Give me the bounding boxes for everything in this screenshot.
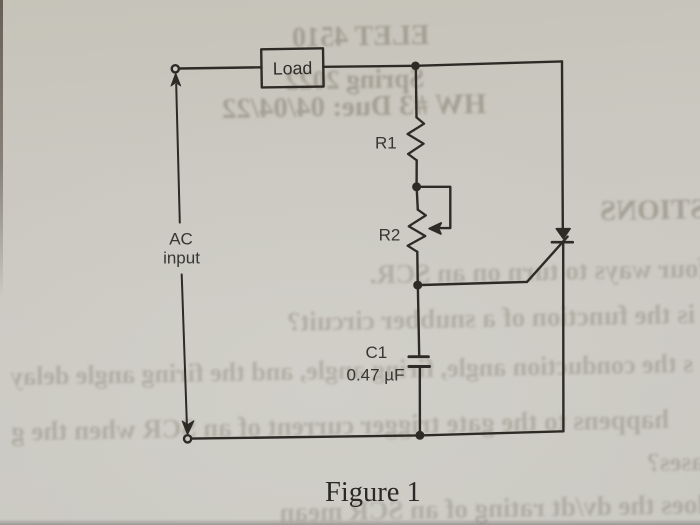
wire: SCR anode from top-right corner	[561, 61, 564, 228]
label: 0.47 uF value	[347, 366, 405, 385]
wire: AC input shaft upper	[176, 85, 180, 223]
svg-text:R1: R1	[375, 133, 397, 152]
junction: node A (R1 / R2 / wiper loop)	[413, 183, 421, 191]
wire: R2 bottom to node B	[416, 252, 419, 282]
wire: node B down to C1	[418, 289, 419, 355]
wire: gate diagonal to SCR	[527, 237, 568, 282]
caption: Figure 1	[325, 477, 421, 508]
SCR cathode bar	[552, 241, 573, 244]
bleed-through mirrored print from reverse of page	[291, 20, 429, 55]
label: AC input	[163, 230, 200, 268]
wire: top rail from AC node to Load	[179, 67, 261, 68]
capacitor C1 top plate	[409, 355, 429, 358]
arrowhead up at AC input top	[171, 73, 181, 86]
label: R1	[375, 133, 397, 152]
wire: SCR cathode down to bottom rail	[562, 242, 565, 431]
capacitor C1 bottom plate	[409, 365, 430, 368]
junction: node at top of R1 branch	[412, 62, 420, 70]
arrowhead down at AC input bottom	[182, 421, 194, 435]
wire: gate horizontal run	[421, 282, 527, 285]
svg-text:Figure 1: Figure 1	[325, 477, 421, 508]
wire: node A down to R2	[417, 190, 418, 210]
junction: node B (R2 / C1 / gate wire)	[414, 281, 422, 289]
wire: C1 down to bottom node	[419, 367, 422, 432]
svg-text:Load: Load	[273, 58, 313, 79]
wire: bottom rail	[191, 431, 563, 438]
wire: wiper loop of R2	[420, 187, 450, 228]
wire: junction down to R1	[415, 66, 418, 117]
svg-text:AC: AC	[169, 230, 193, 249]
node: AC input bottom terminal	[184, 435, 191, 442]
svg-text:input: input	[163, 249, 200, 268]
SCR anode triangle	[556, 229, 570, 239]
component: Load box	[261, 48, 323, 87]
arrowhead: R2 wiper arrow	[429, 223, 441, 234]
wire: R1 bottom to node A	[415, 160, 418, 183]
svg-text:0.47 µF: 0.47 µF	[347, 366, 405, 385]
node: AC input top terminal	[172, 65, 179, 72]
label: C1	[366, 343, 388, 362]
svg-text:C1: C1	[366, 343, 388, 362]
wire: AC input shaft lower	[182, 274, 187, 430]
resistor R2 (variable)	[408, 210, 426, 252]
label: Load	[273, 58, 313, 79]
wire: top rail from Load to top-right corner	[323, 61, 562, 66]
junction: bottom node (C1 / bottom rail)	[416, 431, 424, 439]
svg-text:R2: R2	[379, 226, 401, 245]
resistor R1	[408, 117, 425, 160]
label: R2	[379, 226, 401, 245]
